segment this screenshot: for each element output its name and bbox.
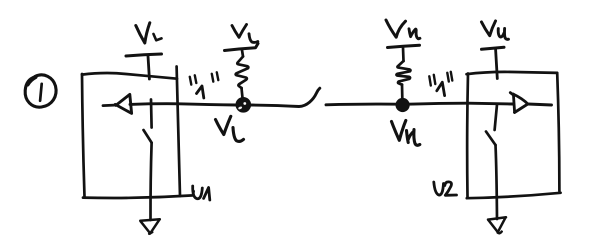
label "1" (right, logic level) bbox=[429, 72, 452, 96]
wire U1 output to node VL bbox=[130, 104, 237, 105]
label VH (U2 supply) bbox=[482, 21, 509, 39]
label VH (above R2) bbox=[386, 20, 420, 39]
ground (U1) bbox=[140, 219, 160, 234]
U1 open-drain transistor switch bbox=[144, 100, 152, 221]
label VL (U1 supply) bbox=[136, 23, 162, 43]
buffer triangle U2 (points right) bbox=[510, 93, 528, 113]
supply terminal VL of U1 (T-bar) bbox=[126, 54, 162, 79]
supply terminal VH of U2 (T-bar) bbox=[482, 47, 505, 78]
label VL (above R1) bbox=[232, 25, 258, 43]
wire node VL to open switch (break) bbox=[250, 88, 320, 106]
wire switch break to node VH bbox=[326, 103, 397, 107]
label VL (below node) bbox=[216, 116, 244, 141]
label U1 bbox=[193, 186, 210, 200]
label VH (below node) bbox=[392, 121, 420, 146]
label U2 bbox=[434, 182, 457, 195]
buffer/inverter triangle U1 (points left) bbox=[103, 94, 132, 113]
wire node VH into U2 bbox=[408, 103, 513, 104]
pull-up resistor R1 (VL) bbox=[225, 44, 259, 99]
node VH (junction dot) bbox=[396, 99, 409, 112]
U2 transistor switch bbox=[486, 105, 497, 220]
wire U2 buffer output bbox=[528, 104, 552, 105]
pull-up resistor R2 (VH) bbox=[388, 45, 420, 98]
node VL (junction dot) bbox=[236, 98, 251, 113]
label "1" (left, logic level) bbox=[190, 72, 219, 98]
ground (U2) bbox=[488, 217, 506, 233]
IC U2 box bbox=[467, 72, 561, 198]
circled figure number 1 bbox=[25, 75, 56, 107]
IC U1 box bbox=[82, 67, 194, 198]
